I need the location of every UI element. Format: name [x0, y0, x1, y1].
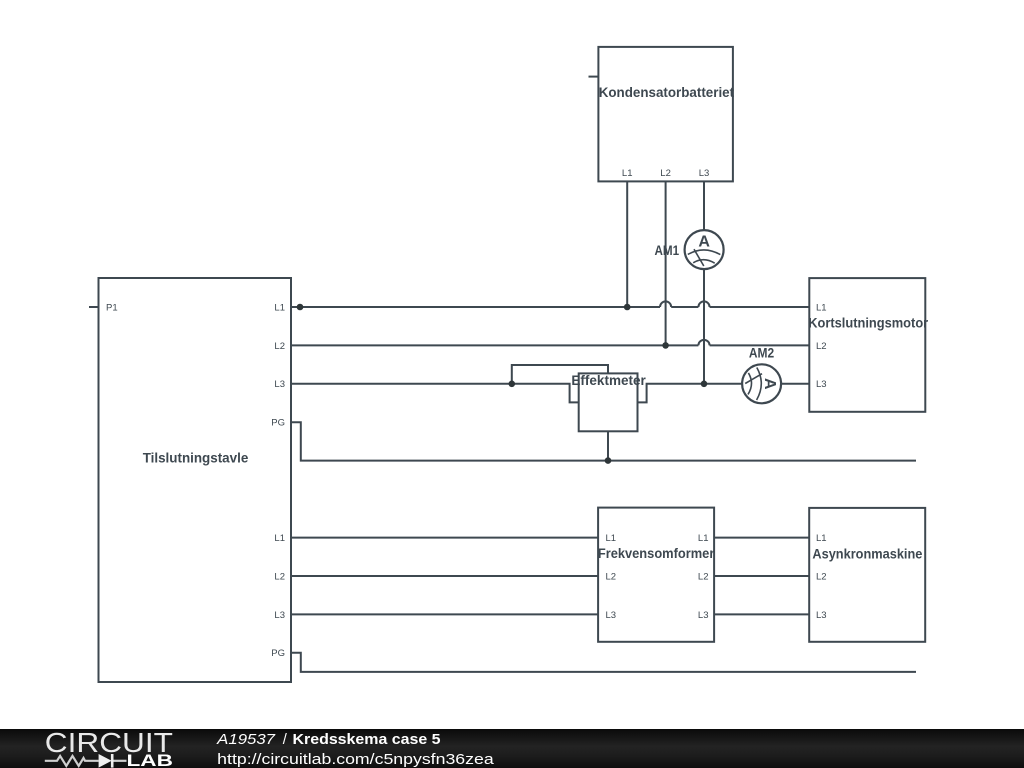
svg-text:P1: P1: [106, 302, 118, 313]
svg-text:PG: PG: [271, 418, 285, 429]
svg-text:L3: L3: [816, 379, 827, 390]
svg-text:L1: L1: [606, 533, 617, 544]
svg-text:L3: L3: [274, 610, 285, 621]
svg-text:Kortslutningsmotor: Kortslutningsmotor: [808, 315, 929, 330]
svg-text:L2: L2: [698, 571, 709, 582]
svg-text:AM2: AM2: [749, 345, 774, 360]
svg-text:Asynkronmaskine: Asynkronmaskine: [812, 546, 922, 561]
svg-text:/: /: [283, 732, 288, 748]
svg-text:L2: L2: [274, 571, 285, 582]
svg-text:Effektmeter: Effektmeter: [571, 373, 646, 388]
svg-text:L2: L2: [816, 571, 827, 582]
svg-text:L2: L2: [816, 341, 827, 352]
svg-text:L1: L1: [816, 302, 827, 313]
svg-text:L1: L1: [274, 302, 285, 313]
svg-text:L3: L3: [816, 610, 827, 621]
svg-text:L2: L2: [274, 341, 285, 352]
svg-text:L3: L3: [699, 168, 710, 179]
svg-text:Kondensatorbatteriet: Kondensatorbatteriet: [599, 85, 735, 100]
svg-text:L1: L1: [622, 168, 633, 179]
svg-text:PG: PG: [271, 648, 285, 659]
svg-text:L2: L2: [660, 168, 671, 179]
svg-text:Frekvensomformer: Frekvensomformer: [598, 546, 715, 561]
svg-text:A: A: [761, 378, 778, 390]
svg-text:A19537: A19537: [216, 732, 276, 748]
svg-text:L1: L1: [816, 533, 827, 544]
svg-text:L3: L3: [274, 379, 285, 390]
svg-text:Tilslutningstavle: Tilslutningstavle: [143, 451, 249, 466]
svg-text:L1: L1: [698, 533, 709, 544]
svg-text:Kredsskema case 5: Kredsskema case 5: [293, 732, 441, 748]
svg-text:LAB: LAB: [127, 751, 173, 768]
svg-text:L1: L1: [274, 533, 285, 544]
svg-text:A: A: [698, 233, 710, 250]
svg-text:L3: L3: [606, 610, 617, 621]
svg-text:L2: L2: [606, 571, 617, 582]
svg-text:L3: L3: [698, 610, 709, 621]
svg-text:http://circuitlab.com/c5npysfn: http://circuitlab.com/c5npysfn36zea: [217, 751, 494, 768]
svg-text:AM1: AM1: [655, 243, 680, 258]
